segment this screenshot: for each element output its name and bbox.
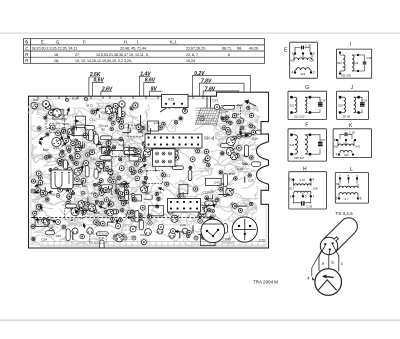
wire with arrowhead xyxy=(74,120,78,122)
resistor body xyxy=(100,240,104,252)
solder pad xyxy=(220,151,226,157)
resistor body xyxy=(223,106,235,110)
solder pad xyxy=(198,219,202,223)
solder pad xyxy=(69,155,72,158)
solder pad xyxy=(45,132,50,137)
solder pad xyxy=(247,106,250,109)
svg-text:C48: C48 xyxy=(154,121,160,125)
resistor body xyxy=(223,224,227,234)
solder pad xyxy=(76,141,80,145)
transistor xyxy=(68,128,75,134)
svg-text:C34: C34 xyxy=(41,238,47,242)
solder pad xyxy=(40,190,45,195)
solder pad xyxy=(45,156,49,160)
wire xyxy=(155,167,157,171)
transistor xyxy=(198,205,209,214)
solder pad xyxy=(218,186,224,192)
wire pair to hatch xyxy=(207,96,211,108)
dashed component outline xyxy=(90,234,106,243)
solder pad xyxy=(237,134,241,138)
copper trace pattern xyxy=(30,103,260,246)
wire xyxy=(83,211,88,215)
solder pad xyxy=(47,154,53,160)
svg-text:27,: 27, xyxy=(75,53,80,57)
wire xyxy=(87,197,89,203)
solder pad xyxy=(71,192,74,195)
solder pad xyxy=(146,213,153,220)
solder pad xyxy=(64,138,69,143)
solder pad xyxy=(116,117,120,121)
svg-text:S10: S10 xyxy=(338,103,343,107)
wire xyxy=(128,124,130,128)
solder pad xyxy=(238,208,242,212)
solder pad xyxy=(94,194,98,198)
table row R1 cells xyxy=(54,53,230,57)
solder pad xyxy=(190,157,195,162)
IF transformer G xyxy=(288,85,327,120)
solder pad xyxy=(234,153,240,159)
wire xyxy=(83,181,87,187)
svg-text:1: 1 xyxy=(313,194,315,198)
svg-text:C49: C49 xyxy=(225,238,231,242)
solder pad xyxy=(228,120,234,126)
svg-text:C25: C25 xyxy=(248,178,254,182)
solder pad xyxy=(119,196,124,201)
solder pad xyxy=(69,189,73,193)
solder pad xyxy=(114,108,121,115)
solder pad xyxy=(134,149,138,153)
svg-text:c: c xyxy=(341,261,343,266)
solder pad xyxy=(90,205,96,211)
solder pad xyxy=(160,172,166,178)
wire xyxy=(123,128,131,133)
solder pad xyxy=(167,208,174,215)
solder pad xyxy=(61,160,64,163)
svg-text:L: L xyxy=(350,167,353,173)
solder pad xyxy=(192,186,199,193)
transistor xyxy=(226,148,235,156)
wire xyxy=(244,177,246,183)
svg-text:F: F xyxy=(305,123,308,129)
page bottom rule xyxy=(0,320,400,321)
solder pad xyxy=(82,159,89,166)
solder pad xyxy=(98,186,104,192)
solder pad xyxy=(221,117,224,120)
svg-text:S24: S24 xyxy=(310,59,315,63)
resistor body xyxy=(85,166,89,177)
solder pad xyxy=(56,194,60,198)
solder pad xyxy=(56,220,61,225)
resistor body xyxy=(97,232,109,236)
svg-text:S 19: S 19 xyxy=(299,178,305,182)
solder pad xyxy=(140,238,147,245)
solder pad xyxy=(49,229,53,233)
transistor xyxy=(163,156,171,163)
solder pad xyxy=(248,155,254,161)
solder pad xyxy=(250,202,253,205)
transistor xyxy=(143,150,152,157)
wire xyxy=(79,143,84,148)
solder pad xyxy=(31,179,35,183)
solder pad xyxy=(171,203,174,206)
solder pad xyxy=(84,152,91,159)
solder pad xyxy=(75,177,80,182)
wire xyxy=(160,161,164,164)
pinout circle (view from below) xyxy=(315,269,342,296)
solder pad xyxy=(138,158,142,162)
solder pad xyxy=(241,228,245,232)
wire xyxy=(144,195,153,200)
solder pad xyxy=(80,207,87,214)
wire with arrowhead xyxy=(51,220,56,222)
solder pad xyxy=(236,119,242,125)
solder pad xyxy=(36,125,42,131)
svg-text:TS 3,4,5: TS 3,4,5 xyxy=(335,211,353,216)
coil footprint xyxy=(148,121,159,131)
solder pad xyxy=(134,215,138,219)
solder pad xyxy=(80,177,87,184)
solder pad xyxy=(70,205,74,209)
solder pad xyxy=(108,201,115,208)
solder pad xyxy=(207,163,211,167)
voltage table frame xyxy=(24,39,265,64)
svg-text:S25: S25 xyxy=(290,59,295,63)
coil footprint xyxy=(53,109,63,119)
solder pad xyxy=(54,168,58,172)
resistor body xyxy=(251,162,260,166)
svg-text:5: 5 xyxy=(360,197,362,201)
svg-text:4: 4 xyxy=(312,178,314,182)
wire with arrowhead xyxy=(67,108,69,116)
svg-text:S41: S41 xyxy=(354,61,359,65)
svg-text:S6: S6 xyxy=(101,127,105,131)
wire xyxy=(245,134,250,135)
svg-text:C40: C40 xyxy=(180,223,186,227)
wire with arrowhead xyxy=(40,206,42,211)
svg-text:C40: C40 xyxy=(242,161,248,165)
solder pad xyxy=(90,130,97,137)
svg-text:C47: C47 xyxy=(214,181,220,185)
solder pad xyxy=(58,187,63,192)
solder pad xyxy=(130,226,136,232)
page top rule xyxy=(0,33,400,34)
svg-text:5: 5 xyxy=(334,138,336,142)
transistor can face xyxy=(320,237,337,254)
wire xyxy=(218,194,230,196)
resistor body xyxy=(244,145,248,157)
svg-text:14,5,53,21,48,36,47 19, 10,11,: 14,5,53,21,48,36,47 19, 10,11, 5, xyxy=(96,53,149,57)
solder pad xyxy=(119,124,124,129)
solder pad xyxy=(229,142,232,145)
lead e xyxy=(319,245,325,271)
solder pad xyxy=(61,224,67,230)
solder pad xyxy=(208,217,215,224)
wire xyxy=(146,128,151,133)
solder pad xyxy=(231,203,235,207)
solder pad xyxy=(35,203,43,211)
solder pad xyxy=(106,189,110,193)
solder pad xyxy=(108,169,113,174)
solder pad xyxy=(142,142,147,147)
dashed component outline xyxy=(65,208,83,219)
oscillator coil K xyxy=(333,123,372,158)
svg-text:C31: C31 xyxy=(89,118,95,122)
solder pad xyxy=(41,218,47,224)
svg-text:C19: C19 xyxy=(233,112,239,116)
solder pad xyxy=(138,169,142,173)
coil footprint xyxy=(124,147,135,154)
wire with arrowhead xyxy=(76,210,78,214)
solder pad xyxy=(142,153,148,159)
solder pad xyxy=(56,157,63,164)
solder pad xyxy=(119,158,122,161)
wire xyxy=(236,205,248,207)
solder pad xyxy=(105,146,112,153)
solder pad xyxy=(86,135,91,140)
svg-text:C42: C42 xyxy=(74,184,80,188)
svg-text:3: 3 xyxy=(356,174,358,178)
solder pad xyxy=(99,179,103,183)
relay coil R25 xyxy=(162,94,189,107)
wire with arrowhead xyxy=(35,191,39,193)
dashed component outline xyxy=(46,115,64,129)
solder pad xyxy=(104,209,110,215)
wire with arrowhead xyxy=(140,165,147,169)
wire xyxy=(246,230,252,232)
solder pad xyxy=(110,172,113,175)
svg-text:C26: C26 xyxy=(259,239,265,243)
resistor body xyxy=(174,204,184,208)
solder pad xyxy=(132,102,140,110)
solder pad xyxy=(46,104,51,109)
solder pad xyxy=(115,223,120,228)
dashed component outline xyxy=(113,145,130,157)
wire xyxy=(119,122,120,124)
solder pad xyxy=(105,104,112,111)
solder pad xyxy=(132,236,136,240)
transistor xyxy=(59,171,67,178)
transistor xyxy=(170,149,179,157)
svg-text:SK-d: SK-d xyxy=(204,136,215,141)
solder pad xyxy=(225,128,232,135)
solder pad xyxy=(119,191,123,195)
solder pad xyxy=(208,216,215,223)
solder pad xyxy=(72,160,78,166)
transistor xyxy=(105,106,114,114)
solder pad xyxy=(60,128,67,135)
svg-text:18,: 18, xyxy=(54,53,59,57)
svg-text:S9 S8: S9 S8 xyxy=(343,115,351,119)
solder pad xyxy=(94,140,98,144)
resistor body xyxy=(100,156,112,160)
lead c xyxy=(333,245,339,272)
wire xyxy=(107,222,113,226)
wire xyxy=(44,187,46,194)
solder pad xyxy=(226,120,229,123)
solder pad xyxy=(110,127,114,131)
resistor body xyxy=(63,160,67,169)
pad C21 xyxy=(214,104,219,109)
wire xyxy=(99,230,101,233)
wire xyxy=(72,231,74,240)
solder pad xyxy=(40,191,47,198)
solder pad xyxy=(202,233,208,239)
resistor body xyxy=(175,205,186,209)
solder pad xyxy=(116,175,122,181)
svg-text:I.: I. xyxy=(137,39,139,44)
svg-text:C14: C14 xyxy=(222,109,228,113)
IF transformer E xyxy=(284,42,317,78)
resistor body xyxy=(220,144,233,148)
solder pad xyxy=(177,193,183,199)
coil footprint xyxy=(76,116,86,125)
svg-text:32,48, 45, 71,44,: 32,48, 45, 71,44, xyxy=(120,47,147,51)
solder pad xyxy=(70,156,76,162)
solder pad xyxy=(200,211,207,218)
solder pad xyxy=(66,166,74,174)
solder pad xyxy=(82,210,86,214)
solder pad xyxy=(75,162,79,166)
solder pad xyxy=(118,194,122,198)
wire xyxy=(198,233,208,235)
solder pad xyxy=(168,155,172,159)
solder pad xyxy=(140,125,146,131)
svg-text:68,: 68, xyxy=(237,47,242,51)
table row C cells xyxy=(32,47,260,51)
svg-text:S: S xyxy=(25,40,28,45)
resistor body xyxy=(84,126,95,130)
svg-text:C 36: C 36 xyxy=(307,205,313,209)
solder pad xyxy=(144,176,147,179)
solder pad xyxy=(211,209,215,213)
solder pad xyxy=(239,219,246,226)
solder pad xyxy=(232,136,236,140)
wire with arrowhead xyxy=(99,206,106,209)
solder pad xyxy=(65,169,72,176)
switch SK-d footprint xyxy=(145,134,202,148)
solder pad xyxy=(106,151,109,154)
coil footprint xyxy=(129,154,140,161)
svg-text:R17: R17 xyxy=(144,190,150,194)
table row S cells xyxy=(41,39,177,44)
solder pad xyxy=(129,105,135,111)
wire with arrowhead xyxy=(108,200,110,207)
svg-text:S35 S36: S35 S36 xyxy=(341,74,352,78)
solder pad xyxy=(142,180,147,185)
solder pad xyxy=(206,207,212,213)
solder pad xyxy=(104,198,108,202)
board inner contour trace xyxy=(31,99,266,245)
svg-text:C 28: C 28 xyxy=(349,131,355,135)
coil footprint xyxy=(35,219,48,226)
wire with arrowhead xyxy=(175,230,183,232)
svg-text:K,J.: K,J. xyxy=(170,39,177,44)
solder pad xyxy=(103,188,108,193)
solder pad xyxy=(160,121,166,127)
solder pad xyxy=(125,184,129,188)
output transistor TS7 xyxy=(232,217,257,242)
resistor body xyxy=(66,204,77,208)
transistor xyxy=(115,234,125,242)
svg-text:R28: R28 xyxy=(50,107,56,111)
svg-text:C21: C21 xyxy=(213,99,219,103)
svg-text:18,20,30,2,3,26,22,35, 24,11: 18,20,30,2,3,26,22,35, 24,11 xyxy=(32,47,78,51)
svg-text:S40: S40 xyxy=(337,61,342,65)
wire xyxy=(111,187,113,194)
solder pad xyxy=(133,161,140,168)
solder pad xyxy=(202,236,205,239)
transistor xyxy=(87,228,93,234)
solder pad xyxy=(96,140,102,146)
solder pad xyxy=(82,132,89,139)
wire xyxy=(203,206,205,212)
solder pad xyxy=(234,177,238,181)
resistor body xyxy=(89,130,94,141)
wire with arrowhead xyxy=(83,224,85,229)
solder pad xyxy=(44,191,48,195)
can locating tab xyxy=(334,237,338,241)
output transistor TS6 xyxy=(201,219,225,243)
dashed component outline xyxy=(221,105,240,117)
solder pad xyxy=(71,139,78,146)
solder pad xyxy=(205,156,210,161)
transistor xyxy=(75,145,83,152)
transistor xyxy=(171,215,179,222)
transistor xyxy=(31,102,39,109)
solder pad xyxy=(120,120,124,124)
transistor xyxy=(230,153,238,160)
solder pad xyxy=(135,124,142,131)
solder pad xyxy=(214,197,220,203)
solder pad xyxy=(104,151,107,154)
transistor xyxy=(144,145,153,152)
svg-text:C33: C33 xyxy=(101,111,107,115)
svg-text:C16: C16 xyxy=(321,98,326,102)
svg-text:C 29: C 29 xyxy=(305,44,311,48)
solder pad xyxy=(129,209,135,215)
svg-text:R15: R15 xyxy=(56,234,62,238)
solder pad xyxy=(133,170,137,174)
solder pad xyxy=(43,190,49,196)
wire xyxy=(131,167,135,174)
svg-text:S42: S42 xyxy=(334,145,339,149)
resistor body xyxy=(256,130,267,134)
solder pad xyxy=(68,175,75,182)
svg-text:R16: R16 xyxy=(156,190,162,194)
svg-text:S28 S27: S28 S27 xyxy=(294,156,305,160)
solder pad xyxy=(119,182,125,188)
transistor xyxy=(182,228,188,234)
solder pad xyxy=(158,224,164,230)
table row R2 cells xyxy=(54,59,195,63)
svg-text:S1: S1 xyxy=(111,220,115,224)
solder pad xyxy=(105,167,109,171)
solder pad xyxy=(85,201,92,208)
svg-text:0,2V: 0,2V xyxy=(194,71,205,77)
solder pad xyxy=(143,158,146,161)
solder pad xyxy=(101,188,105,192)
solder pad xyxy=(199,115,206,122)
wire with arrowhead xyxy=(242,134,249,136)
svg-text:C42: C42 xyxy=(33,98,39,102)
svg-text:R: R xyxy=(25,58,28,63)
solder pad xyxy=(49,110,54,115)
solder pad xyxy=(123,236,127,240)
solder pad xyxy=(155,192,158,195)
wire with arrowhead xyxy=(67,136,71,142)
svg-text:S 7: S 7 xyxy=(345,197,349,201)
svg-text:S22: S22 xyxy=(290,103,295,107)
